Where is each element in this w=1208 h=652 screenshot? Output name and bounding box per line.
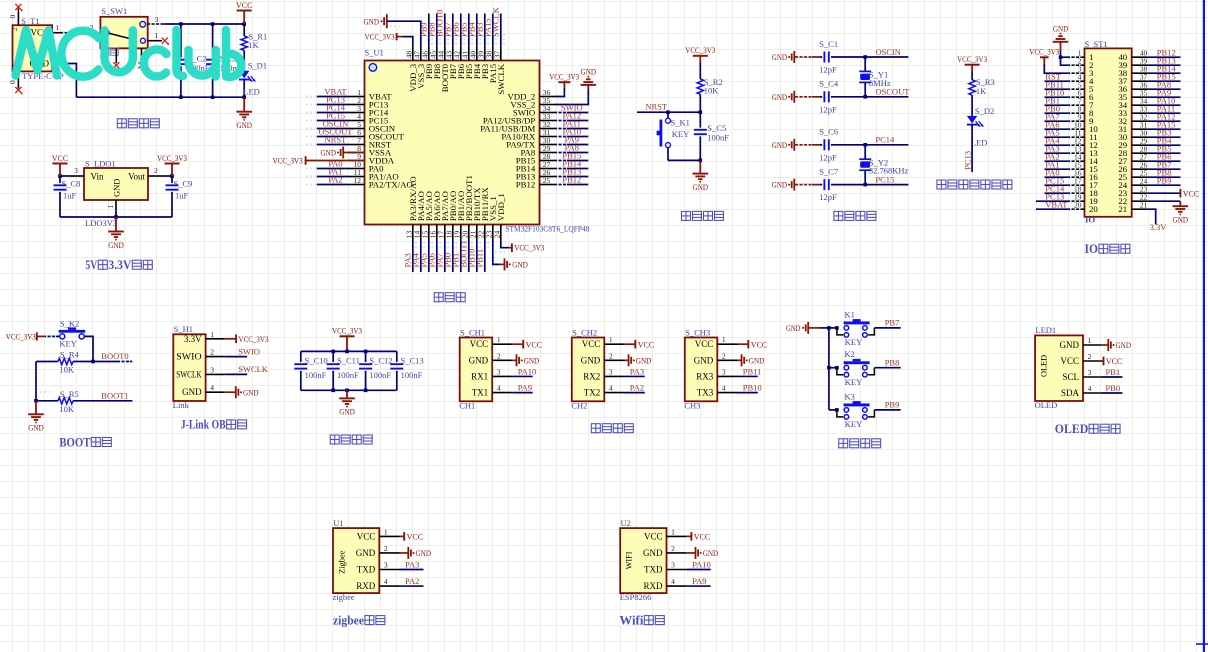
power port VCC [236,0,253,24]
wire and net label PB15 [555,151,588,161]
power port VCC at S_CH1 pin 1 [512,339,542,349]
svg-text:CH2: CH2 [571,400,587,410]
wire and net label PB8 [874,357,900,367]
capacitor C3 100nF [206,24,242,97]
svg-text:GND: GND [182,387,202,397]
wire and net label PB5 [458,14,472,46]
svg-text:GND: GND [243,387,259,397]
svg-text:VCC_3V3: VCC_3V3 [332,326,362,336]
svg-text:1: 1 [106,205,115,209]
MCU U1 STM32F103C8T6 LQFP48 [365,48,590,234]
pin 38 of ST1 [1132,65,1157,74]
svg-text:10K: 10K [704,86,720,96]
wire and net label PB9 [1148,175,1181,185]
wire and net label PB7 [1148,159,1181,169]
svg-text:GND: GND [321,148,337,158]
ground GND at top of ST1 [1053,23,1069,50]
pin 1 VCC of S_CH1 [492,335,512,344]
svg-text:3: 3 [671,561,675,570]
svg-text:VCC: VCC [695,339,714,349]
svg-text:U2: U2 [621,518,631,528]
svg-text:2: 2 [722,351,726,360]
push button K1 KEY [829,309,875,347]
pin 18 of ST1 [1069,185,1085,194]
power port VCC_3V3 of indicator [957,54,987,72]
wire and net label PA15 [1148,119,1181,129]
pin 9 VDDA of U1 [349,152,365,161]
ground GND at VSS_3 pin 47 [364,14,421,46]
svg-text:GND: GND [416,548,432,558]
svg-text:2: 2 [609,351,613,360]
svg-text:20: 20 [1089,204,1098,214]
svg-text:VCC: VCC [1106,356,1123,366]
caption main chip [434,293,443,303]
resistor R2 10K [697,63,723,112]
pin 1 3.3V of S_H1 [206,330,225,339]
power port VCC at U1 pin 1 [400,532,424,542]
wire and net label NRST [637,102,702,114]
svg-text:GND: GND [581,355,601,365]
wire and net label PB10 [466,240,480,272]
pin 19 PB1/AO of U1 [453,225,462,241]
wire LDO ground rail [60,208,172,219]
svg-text:SWCLK: SWCLK [496,63,506,94]
svg-text:GND: GND [108,240,124,250]
caption crystal circuit [834,211,843,221]
svg-text:4: 4 [210,383,214,392]
ground GND at U1 pin 2 [400,547,432,559]
svg-text:GND: GND [703,548,719,558]
svg-text:1: 1 [1088,336,1092,345]
pin 26 PB13 of U1 [540,168,556,177]
svg-text:S_D1: S_D1 [248,60,267,70]
pin 2 GND of S_CH1 [492,351,512,360]
push button K2 KEY [829,349,875,387]
svg-text:TXD: TXD [644,565,663,575]
svg-text:IO: IO [1085,242,1099,256]
module U1 (zigbee) [333,518,380,602]
svg-text:KEY: KEY [845,337,862,347]
svg-text:GND: GND [356,548,376,558]
svg-text:4: 4 [384,577,388,586]
wire and net label PC13 [1036,191,1069,201]
wire and net label 3.3V at ST1 pin 21 [1148,209,1168,232]
svg-text:OSCOUT: OSCOUT [875,87,910,97]
svg-text:PA10: PA10 [518,366,537,376]
pin 4 RXD of U2 [667,577,687,586]
svg-text:3: 3 [497,367,501,376]
pin 42 PB6 of U1 [453,46,462,61]
svg-text:Zigbee: Zigbee [338,550,347,573]
pin 3 TXD of U1 [379,561,399,570]
header ST1 IO expansion [1085,39,1132,225]
pin 5 OSCIN of U1 [349,120,365,129]
wire Vout node [164,174,174,178]
wire and net label PB0 [1101,383,1123,393]
ground GND at ST1 pin 22 [1148,201,1189,224]
pin 39 of ST1 [1132,57,1157,66]
svg-text:32.768KHz: 32.768KHz [869,166,909,176]
svg-text:PA3: PA3 [405,559,419,569]
pin 24 VDD_1 of U1 [493,225,502,241]
wire and net label PA10 [512,366,536,376]
LED D2 [967,106,994,147]
svg-text:VDD_1: VDD_1 [496,193,506,221]
crystal Y2 32.768KHz [859,143,908,186]
svg-text:3: 3 [1088,368,1092,377]
wire crystal row 4 [794,184,820,186]
svg-text:1K: 1K [976,86,987,96]
svg-text:LED: LED [243,87,260,97]
svg-text:BOOT: BOOT [59,435,91,449]
pin 13 of ST1 [1069,145,1085,154]
wire and net label PC13 [962,125,972,172]
wire and net label PA5 [418,240,432,272]
svg-text:GND: GND [643,548,663,558]
svg-text:VCC_3V3: VCC_3V3 [157,153,187,163]
pin 35 of ST1 [1132,89,1157,98]
svg-text:PA9: PA9 [518,382,532,392]
wire and net label PA6 [426,240,440,272]
caption power circuit [117,119,126,129]
regulator LDO1 [84,159,148,229]
wire and net label PA3 [1045,143,1070,153]
wire and net label PA12 [555,111,588,121]
pin 12 PA2/TX/AO of U1 [349,176,365,185]
ground GND of LDO [108,217,124,250]
connector T1 (TYPE-C-2P) [11,16,64,81]
wire crystal row 3 [794,144,820,146]
wire and net label PA1 [1045,159,1070,169]
push button K3 KEY [829,391,875,429]
svg-text:PB11: PB11 [474,249,484,268]
svg-text:SWCLK: SWCLK [176,369,202,379]
svg-text:4: 4 [1088,384,1092,393]
svg-text:TX2: TX2 [584,388,601,398]
svg-text:1K: 1K [248,40,259,50]
svg-text:PB10: PB10 [743,382,762,392]
pin 45 PB8 of U1 [429,46,438,61]
net label PC14 [875,135,895,145]
ground GND at S_CH2 pin 2 [625,354,652,366]
wire and net label PA10 [1148,95,1181,105]
svg-text:1: 1 [56,23,60,32]
svg-text:GND: GND [364,16,380,26]
svg-text:GND: GND [1053,23,1069,33]
svg-text:S_CH3: S_CH3 [685,327,710,337]
svg-text:zigbee: zigbee [333,592,355,602]
svg-text:RXD: RXD [643,581,663,591]
svg-text:21: 21 [1118,204,1127,214]
pin 3 PC14 of U1 [349,104,365,113]
svg-text:VCC_3V3: VCC_3V3 [685,45,715,55]
wire T1 GND down to bottom rail [66,64,76,98]
pin 0 bottom of T1 with no-connect [8,71,22,94]
svg-text:100nF: 100nF [337,370,359,380]
capacitor C2 100nF [174,24,209,97]
wire and net label PB14 [1148,63,1181,73]
pin 36 of ST1 [1132,81,1157,90]
pin 1 GND of LED1 [1083,336,1101,345]
ground GND at VSS_2 pin 35 [555,67,596,105]
push button K1 KEY of reset [657,112,690,160]
svg-text:S_SW1: S_SW1 [101,6,127,16]
wire T1 VCC to SW1 [62,23,96,33]
module S_CH3 (serial) [684,327,717,410]
wire and net label PA9 [687,576,711,586]
svg-text:Link: Link [173,400,190,410]
svg-text:STM32F103C8T6_LQFP48: STM32F103C8T6_LQFP48 [505,225,589,234]
capacitor C5 100nF [694,112,730,160]
wire and net label PB0 [1045,103,1070,113]
pin 1 VCC of S_CH2 [604,335,624,344]
pin 25 PB12 of U1 [540,176,556,185]
pin 8 of ST1 [1069,105,1085,114]
pin 35 VSS_2 of U1 [540,96,556,105]
svg-text:PB9: PB9 [885,400,900,410]
wire and net label PB7 [874,318,900,328]
wire BOOT left trunk [34,362,38,403]
svg-text:S_D2: S_D2 [975,106,994,116]
pin 2 PC13 of U1 [349,96,365,105]
svg-text:SCL: SCL [1062,372,1079,382]
svg-text:VCC: VCC [236,0,253,10]
pin 31 PA10/RX of U1 [540,128,556,137]
wire and net label PA2 [400,576,424,586]
svg-text:SWCLK: SWCLK [238,364,269,374]
wire and net label PA0 [1045,167,1070,177]
pin 2 GND of U1 [379,544,399,553]
caption filter circuit [330,435,339,445]
svg-text:10K: 10K [59,365,75,375]
pin 10 of ST1 [1069,121,1085,130]
svg-text:PA2: PA2 [328,175,342,185]
wire and net label PC15 [306,111,349,121]
ground GND at VSS_1 pin 23 [493,240,528,270]
wire and net label PA0 [306,159,349,169]
pin 7 of ST1 [1069,97,1085,106]
pin 8 VSSA of U1 [349,144,365,153]
svg-text:4: 4 [722,384,726,393]
pin 17 PA7/AO of U1 [437,225,446,241]
pin 1 of SW1 with no-connect [148,31,169,45]
ground GND at VSSA pin 8 [321,147,365,159]
wire and net label BOOT1 [40,390,132,401]
pin 48 VDD_3 of U1 [405,46,414,61]
pin 47 VSS_3 of U1 [413,46,422,61]
svg-text:PA2/TX/AO: PA2/TX/AO [369,180,413,190]
wire and net label PB6 [450,14,464,46]
wire and net label PC14 [1045,183,1070,193]
svg-text:2: 2 [671,544,675,553]
svg-text:VCC: VCC [526,339,543,349]
wire and net label PB10 [738,382,762,392]
capacitor S_C11 100nF [327,351,360,390]
pin 33 PA12/USB/DP of U1 [540,112,556,121]
pin 15 of ST1 [1069,161,1085,170]
svg-text:RX1: RX1 [471,371,488,381]
net label OSCOUT [875,87,910,97]
ground GND at LED1 pin 1 [1101,339,1131,351]
svg-text:GND: GND [1116,340,1132,350]
pin 1 VCC of U2 [667,527,687,536]
svg-text:PB9: PB9 [1157,175,1172,185]
svg-text:1: 1 [210,330,214,339]
wire and net label BOOT0 [93,351,132,362]
svg-text:S_C9: S_C9 [174,178,193,188]
svg-text:OSCIN: OSCIN [875,47,901,57]
svg-text:ESP8266: ESP8266 [620,592,652,602]
pin 19 of ST1 [1069,193,1085,202]
wire and net label PB1 [1045,95,1070,105]
wire and net label PA3 [402,240,416,272]
pin 25 of ST1 [1132,169,1157,178]
pin 3 of SW1 [148,15,165,24]
svg-text:5V: 5V [85,258,97,272]
pin 37 of ST1 [1132,73,1157,82]
svg-text:KEY: KEY [59,339,76,349]
svg-text:12pF: 12pF [819,65,837,75]
pin 22 PB11/RX of U1 [477,225,486,241]
svg-text:1uF: 1uF [175,191,189,201]
pin 23 VSS_1 of U1 [485,225,494,241]
svg-text:GND: GND [469,355,489,365]
svg-text:TX1: TX1 [472,388,489,398]
svg-text:24: 24 [493,231,502,239]
wire and net label BOOT0 [434,10,448,46]
svg-text:3.3V: 3.3V [1150,222,1168,232]
pin 40 of ST1 [1132,49,1157,58]
svg-text:VCC: VCC [1183,188,1200,198]
pin 4 TX2 of S_CH2 [604,384,624,393]
wire and net label PB8 [1148,167,1181,177]
svg-text:OLED: OLED [1035,400,1058,410]
svg-text:S_C13: S_C13 [401,355,424,365]
svg-text:VCC_3V3: VCC_3V3 [549,71,579,81]
pin 0 top of T1 with no-connect [8,4,22,25]
svg-text:1: 1 [609,335,613,344]
wire crystal row 1 [794,56,820,58]
pin 43 PB7 of U1 [445,46,454,61]
power port VCC_3V3 of filter [332,326,362,352]
pin 38 PA15 of U1 [485,46,494,61]
power port VCC at S_CH3 pin 1 [738,339,768,349]
svg-text:SDA: SDA [1061,388,1080,398]
pin 1 of ST1 [1069,49,1085,58]
ground GND of filter [339,390,355,416]
wire and net label PB3 [474,14,488,46]
pin 7 NRST of U1 [349,136,365,145]
pin 4 RXD of U1 [379,577,399,586]
power port VCC_3V3 of reset circuit [685,45,715,63]
bottom pins of SW1 with no-connects [113,48,146,69]
wire and net label PA3 [400,559,424,569]
svg-text:VCC: VCC [470,339,489,349]
pin 9 of ST1 [1069,113,1085,122]
svg-text:NRST: NRST [325,135,348,145]
pin 13 PA3/RX/AO of U1 [405,225,414,241]
pin 11 of ST1 [1069,129,1085,138]
wire and net label VBAT [1036,199,1069,209]
net label PC15 [875,174,894,184]
pin 5 of ST1 [1069,81,1085,90]
capacitor S_C1 12pF [819,39,908,75]
power port VCC at S_CH2 pin 1 [625,339,655,349]
svg-text:PB1: PB1 [1106,367,1121,377]
ground GND of key circuit [786,322,820,334]
pin 3 SWCLK of S_H1 [206,365,225,374]
svg-text:PB12: PB12 [562,175,581,185]
pin 22 of ST1 [1132,193,1157,202]
wire and net label PB15 [1148,71,1181,81]
pin 41 PB5 of U1 [461,46,470,61]
svg-text:GND: GND [749,355,765,365]
pin 1 VCC of T1 [52,23,62,33]
svg-text:S_U1: S_U1 [365,48,384,58]
svg-text:GND: GND [636,355,652,365]
wire and net label PA6 [1045,119,1070,129]
wire Vin node [58,174,68,178]
power port VCC_3V3 at S_H1 pin 1 [225,334,269,344]
wire and net label PB12 [1148,47,1181,57]
resistor R5 10K [36,389,93,414]
ground GND at S_CH3 pin 2 [738,354,765,366]
switch SW1 [100,6,147,56]
svg-text:100nF: 100nF [369,370,391,380]
svg-text:2: 2 [497,351,501,360]
pin 6 OSCOUT of U1 [349,128,365,137]
svg-text:NRST: NRST [645,102,668,112]
svg-text:GND: GND [693,182,709,192]
svg-text:3: 3 [155,15,159,24]
pin 4 GND of S_H1 [206,383,225,392]
wire and net label PA8 [1148,79,1181,89]
svg-text:S_C8: S_C8 [62,178,81,188]
ground GND of crystal row 2 [772,91,795,103]
caption program run indicator [937,180,946,190]
wire and net label OSCOUT [306,127,353,137]
pin 3 RX2 of S_CH2 [604,367,624,376]
wire and net label PA15 [482,14,496,46]
resistor R4 10K [36,350,93,375]
ground GND at S_CH1 pin 2 [512,354,539,366]
svg-text:GND: GND [339,407,355,417]
svg-text:1: 1 [155,31,159,40]
svg-text:0: 0 [8,15,17,19]
caption key circuit [839,439,848,449]
svg-text:PA3: PA3 [630,366,644,376]
svg-text:S_CH1: S_CH1 [460,327,485,337]
pin 2 GND of S_CH2 [604,351,624,360]
svg-text:1: 1 [671,527,675,536]
pin 15 PA5/AO of U1 [421,225,430,241]
pin 16 of ST1 [1069,169,1085,178]
svg-text:K3: K3 [845,391,855,401]
svg-text:BOOT0: BOOT0 [101,351,128,361]
wire and net label PB1 [450,240,464,272]
pin 23 of ST1 [1132,185,1157,194]
wire and net label PC15 [1045,175,1070,185]
pin 46 PB9 of U1 [421,46,430,61]
svg-text:GND: GND [1173,215,1189,225]
pin 2 Vout of LDO1 [148,166,164,176]
wire and net label OSCIN [306,119,349,129]
pin 6 of ST1 [1069,89,1085,98]
pin 44 BOOT0 of U1 [437,46,446,61]
power port VCC at ST1 pin 23 [1148,188,1200,198]
wire and net label PB8 [426,14,440,46]
svg-text:GND: GND [28,423,44,433]
